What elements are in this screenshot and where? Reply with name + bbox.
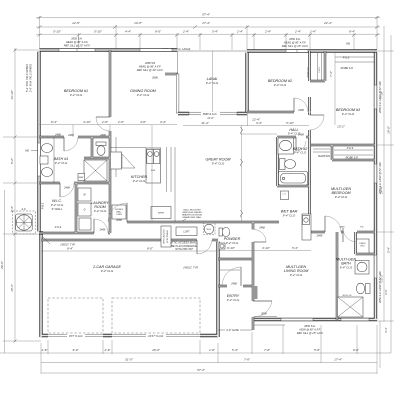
svg-text:16'-0": 16'-0" bbox=[152, 348, 161, 352]
svg-text:WALL MOUNTED: WALL MOUNTED bbox=[183, 208, 201, 211]
svg-text:2668 5/6: 2668 5/6 bbox=[144, 61, 156, 65]
svg-text:9'-4" CLG: 9'-4" CLG bbox=[212, 162, 225, 166]
svg-text:4'-10": 4'-10" bbox=[83, 120, 92, 124]
svg-text:3'-4": 3'-4" bbox=[256, 121, 263, 125]
left dimension chains bbox=[0, 48, 41, 353]
svg-text:WITH FBC 807: WITH FBC 807 bbox=[175, 247, 193, 251]
svg-text:WITH STAIRS: WITH STAIRS bbox=[166, 229, 169, 242]
svg-text:6'-6": 6'-6" bbox=[353, 348, 360, 352]
svg-text:OVEN: OVEN bbox=[116, 214, 122, 216]
svg-text:ROBE S.P.: ROBE S.P. bbox=[341, 66, 354, 70]
svg-text:2'-0": 2'-0" bbox=[384, 288, 388, 295]
svg-text:D: D bbox=[84, 209, 86, 212]
svg-text:7'-4": 7'-4" bbox=[329, 70, 333, 77]
svg-text:TANKLESS WATER: TANKLESS WATER bbox=[182, 211, 202, 214]
interior walls bbox=[39, 50, 375, 330]
svg-text:P & S: P & S bbox=[55, 225, 62, 229]
svg-text:2468: 2468 bbox=[99, 228, 106, 232]
svg-text:5'-4": 5'-4" bbox=[387, 246, 391, 253]
svg-text:12'-4": 12'-4" bbox=[252, 117, 261, 121]
bath1 fixtures bbox=[40, 137, 107, 183]
windows bottom wall bbox=[281, 318, 369, 335]
svg-text:J-BOLT, TYP.: J-BOLT, TYP. bbox=[183, 266, 199, 270]
closet shelf details bbox=[41, 52, 375, 229]
svg-text:8'-0": 8'-0" bbox=[155, 29, 162, 33]
svg-text:2468: 2468 bbox=[297, 108, 304, 112]
laundry fixtures bbox=[78, 188, 126, 230]
door labels bbox=[63, 76, 364, 316]
svg-text:5'-10": 5'-10" bbox=[53, 29, 62, 33]
svg-text:2'-4": 2'-4" bbox=[264, 29, 272, 33]
svg-text:FRAME BRG WALL: FRAME BRG WALL bbox=[182, 216, 202, 219]
svg-text:5'-4": 5'-4" bbox=[232, 348, 239, 352]
svg-text:6'-10": 6'-10" bbox=[227, 246, 236, 250]
svg-text:13'-2": 13'-2" bbox=[337, 125, 346, 129]
svg-text:2'-6": 2'-6" bbox=[104, 348, 112, 352]
svg-text:2468: 2468 bbox=[67, 133, 74, 137]
svg-text:5'-4": 5'-4" bbox=[212, 29, 219, 33]
svg-text:9'-4" CLG: 9'-4" CLG bbox=[133, 179, 146, 183]
svg-text:29'-0": 29'-0" bbox=[0, 260, 4, 270]
svg-text:REF. SILL @ 25" A.F.F.: REF. SILL @ 25" A.F.F. bbox=[64, 44, 91, 48]
svg-text:9'-4" CLG: 9'-4" CLG bbox=[288, 132, 301, 136]
svg-text:18'-4": 18'-4" bbox=[10, 283, 14, 292]
svg-text:2868: 2868 bbox=[115, 218, 122, 222]
svg-text:2650 S.H. HDW @ 84" AFF: 2650 S.H. HDW @ 84" AFF bbox=[378, 271, 382, 304]
svg-text:P & S: P & S bbox=[343, 56, 350, 60]
svg-text:2'-6": 2'-6" bbox=[41, 348, 49, 352]
top dimension chain B bbox=[36, 21, 380, 29]
svg-text:16'X7' O.H.D.: 16'X7' O.H.D. bbox=[148, 334, 164, 338]
svg-text:8968 S.G.D.: 8968 S.G.D. bbox=[203, 112, 218, 116]
exterior walls double-line bbox=[39, 50, 377, 337]
svg-text:9'-0": 9'-0" bbox=[73, 348, 80, 352]
svg-text:8'-2": 8'-2" bbox=[10, 157, 14, 164]
svg-text:2'-8" MAX TKLS SPKRS: 2'-8" MAX TKLS SPKRS bbox=[29, 64, 33, 93]
svg-text:14'-10": 14'-10" bbox=[10, 89, 14, 99]
AC unit bbox=[13, 207, 36, 234]
svg-text:REF. SILL @ 25" A.F.F.: REF. SILL @ 25" A.F.F. bbox=[282, 44, 309, 48]
svg-text:6'-4": 6'-4" bbox=[51, 120, 58, 124]
svg-text:11'-4": 11'-4" bbox=[201, 121, 209, 125]
svg-text:P & S: P & S bbox=[41, 202, 45, 209]
svg-text:9'-4" CLG: 9'-4" CLG bbox=[101, 269, 114, 273]
svg-text:2468: 2468 bbox=[99, 133, 106, 137]
svg-text:HB: HB bbox=[25, 149, 29, 153]
svg-text:P.S.: P.S. bbox=[360, 227, 364, 229]
svg-text:5'-10": 5'-10" bbox=[94, 29, 103, 33]
svg-text:2'-0": 2'-0" bbox=[101, 120, 109, 124]
svg-text:REF. SILL @ 25" A.F.F.: REF. SILL @ 25" A.F.F. bbox=[297, 331, 324, 335]
svg-text:5'-6": 5'-6" bbox=[314, 348, 321, 352]
bath2 fixtures bbox=[278, 138, 308, 185]
svg-text:5'-4": 5'-4" bbox=[292, 246, 299, 250]
kitchen bbox=[111, 137, 172, 219]
svg-text:9'-4" CLG: 9'-4" CLG bbox=[290, 273, 303, 277]
svg-text:REFR: REFR bbox=[158, 213, 164, 215]
svg-text:HEAD @ 80" A.F.F.: HEAD @ 80" A.F.F. bbox=[66, 40, 88, 44]
svg-text:ROBE S.P.: ROBE S.P. bbox=[346, 156, 359, 160]
svg-text:ROBE S.P.: ROBE S.P. bbox=[308, 66, 310, 77]
top dimension chain A overall bbox=[36, 13, 380, 20]
svg-text:57'-4": 57'-4" bbox=[202, 13, 211, 17]
svg-text:REF. SILL @ 30" A.F.F.: REF. SILL @ 30" A.F.F. bbox=[137, 68, 164, 72]
svg-text:9'-4" CLG: 9'-4" CLG bbox=[274, 83, 287, 87]
svg-text:P & S: P & S bbox=[319, 67, 321, 73]
svg-text:6'-4": 6'-4" bbox=[67, 246, 74, 250]
svg-text:3'-10": 3'-10" bbox=[262, 246, 271, 250]
svg-text:16'-0": 16'-0" bbox=[387, 125, 391, 134]
svg-text:A.C.: A.C. bbox=[20, 207, 26, 211]
linen + wet bar bbox=[281, 191, 312, 240]
svg-text:2'-4": 2'-4" bbox=[182, 29, 190, 33]
door leaves and arcs bbox=[60, 98, 357, 317]
svg-text:9'-4" CLG: 9'-4" CLG bbox=[340, 266, 353, 270]
svg-text:2'-0": 2'-0" bbox=[117, 120, 125, 124]
svg-text:W/D: W/D bbox=[361, 246, 365, 248]
entry gate + porch bbox=[218, 270, 285, 332]
room labels bbox=[51, 77, 361, 302]
svg-text:2'-4": 2'-4" bbox=[236, 29, 244, 33]
svg-text:9'-4" CLG: 9'-4" CLG bbox=[227, 298, 240, 302]
svg-text:17'-4": 17'-4" bbox=[334, 357, 343, 361]
top extension lines bbox=[40, 16, 378, 50]
window note bedroom2 top bbox=[282, 37, 350, 48]
svg-text:57'-4": 57'-4" bbox=[197, 368, 206, 372]
windows top wall bbox=[59, 49, 308, 53]
svg-text:HEATER ON WOOD: HEATER ON WOOD bbox=[182, 214, 203, 217]
garage door dashed tracks bbox=[48, 298, 200, 333]
svg-text:13'-8": 13'-8" bbox=[134, 21, 143, 25]
svg-text:9'-4" CLG: 9'-4" CLG bbox=[342, 112, 355, 116]
interior dim rows bbox=[39, 117, 346, 269]
svg-text:L.C.: L.C. bbox=[283, 194, 287, 196]
svg-text:RAMP DN: RAMP DN bbox=[318, 154, 330, 158]
svg-text:J-BOLT, TYP.: J-BOLT, TYP. bbox=[60, 243, 76, 247]
top dimension chain C bbox=[36, 29, 380, 36]
svg-text:22'-4": 22'-4" bbox=[323, 21, 333, 25]
svg-text:2650 S.H. HDW @ 84" AFF: 2650 S.H. HDW @ 84" AFF bbox=[378, 162, 382, 195]
svg-text:2650 S.H.: 2650 S.H. bbox=[70, 37, 83, 41]
svg-text:9'-4" CLG: 9'-4" CLG bbox=[294, 151, 307, 155]
mud / garage top fixtures bbox=[161, 208, 215, 251]
svg-text:7'-6": 7'-6" bbox=[244, 357, 251, 361]
svg-text:17'-4": 17'-4" bbox=[202, 21, 211, 25]
window note bedroom1 top bbox=[64, 37, 91, 48]
svg-text:4'-4": 4'-4" bbox=[125, 29, 132, 33]
svg-text:3068: 3068 bbox=[261, 312, 267, 316]
right dimension chains bbox=[377, 26, 394, 368]
svg-text:ATTIC ACCESS: ATTIC ACCESS bbox=[163, 229, 166, 245]
svg-text:2468: 2468 bbox=[339, 226, 346, 229]
svg-text:HEAD @ 96" A.F.F.: HEAD @ 96" A.F.F. bbox=[139, 65, 161, 69]
svg-text:2468: 2468 bbox=[54, 133, 61, 137]
svg-text:12'-8": 12'-8" bbox=[72, 21, 81, 25]
dining window note bbox=[137, 61, 164, 72]
svg-text:9'-4" CLG: 9'-4" CLG bbox=[94, 209, 107, 213]
svg-text:2'-4": 2'-4" bbox=[309, 29, 317, 33]
svg-text:SEAT: SEAT bbox=[78, 176, 84, 179]
svg-text:HB: HB bbox=[346, 42, 350, 46]
svg-text:2468: 2468 bbox=[316, 233, 323, 237]
garage door openings in bottom wall bbox=[48, 334, 200, 338]
svg-text:5'-2" MIN. TKLS SPKRS: 5'-2" MIN. TKLS SPKRS bbox=[25, 64, 29, 92]
svg-text:8'-0": 8'-0" bbox=[147, 246, 154, 250]
svg-text:2650 S.H.: 2650 S.H. bbox=[288, 37, 301, 41]
svg-text:2468: 2468 bbox=[230, 282, 237, 286]
svg-text:W.H.: W.H. bbox=[207, 229, 212, 231]
svg-text:9'-4" CLG: 9'-4" CLG bbox=[226, 241, 239, 245]
svg-text:2468: 2468 bbox=[63, 185, 70, 189]
svg-text:ROLL-IN: ROLL-IN bbox=[343, 295, 352, 297]
powder fixtures bbox=[219, 227, 230, 249]
svg-text:2'-4": 2'-4" bbox=[294, 29, 302, 33]
svg-text:HEAD @ 80" A.F.F.: HEAD @ 80" A.F.F. bbox=[284, 41, 306, 45]
svg-text:4'-0" GATE: 4'-0" GATE bbox=[226, 328, 239, 332]
svg-text:9'-4" CLG: 9'-4" CLG bbox=[55, 161, 68, 165]
svg-text:31'-0": 31'-0" bbox=[125, 357, 134, 361]
svg-text:9'X7' O.H.D.: 9'X7' O.H.D. bbox=[69, 334, 84, 338]
svg-text:1'-6": 1'-6" bbox=[209, 348, 216, 352]
svg-text:9'-4" CLG: 9'-4" CLG bbox=[70, 93, 83, 97]
svg-text:9'-4" CLG: 9'-4" CLG bbox=[283, 214, 296, 218]
window left wall bath bbox=[38, 143, 41, 176]
svg-text:2668: 2668 bbox=[151, 76, 158, 80]
great room centerline bbox=[241, 125, 243, 222]
svg-text:2650 S.H.: 2650 S.H. bbox=[303, 324, 316, 328]
svg-text:9'-4" CLG: 9'-4" CLG bbox=[335, 195, 348, 199]
svg-text:HDW @ 80" A.F.F.: HDW @ 80" A.F.F. bbox=[299, 327, 320, 331]
svg-text:2650 S.H. HDW @ 84" AFF: 2650 S.H. HDW @ 84" AFF bbox=[378, 81, 382, 114]
lanai enclosure bbox=[165, 51, 247, 120]
svg-text:6' WALL: 6' WALL bbox=[52, 207, 63, 211]
svg-text:2468: 2468 bbox=[258, 225, 265, 229]
svg-text:9'-4" CLG: 9'-4" CLG bbox=[137, 93, 150, 97]
svg-text:4'-6": 4'-6" bbox=[140, 120, 147, 124]
windows right wall bbox=[374, 85, 377, 278]
bottom dimension chains bbox=[0, 325, 391, 374]
svg-text:3'-4": 3'-4" bbox=[160, 120, 167, 124]
svg-text:5'-10": 5'-10" bbox=[286, 121, 295, 125]
svg-text:LOFT: LOFT bbox=[183, 231, 190, 234]
svg-text:11'-0": 11'-0" bbox=[207, 116, 214, 120]
svg-text:8'-4": 8'-4" bbox=[349, 29, 356, 33]
svg-text:7'-6": 7'-6" bbox=[264, 348, 271, 352]
svg-text:STACK: STACK bbox=[359, 242, 366, 245]
mg bath fixtures bbox=[338, 239, 371, 317]
svg-text:P & S: P & S bbox=[347, 146, 354, 150]
